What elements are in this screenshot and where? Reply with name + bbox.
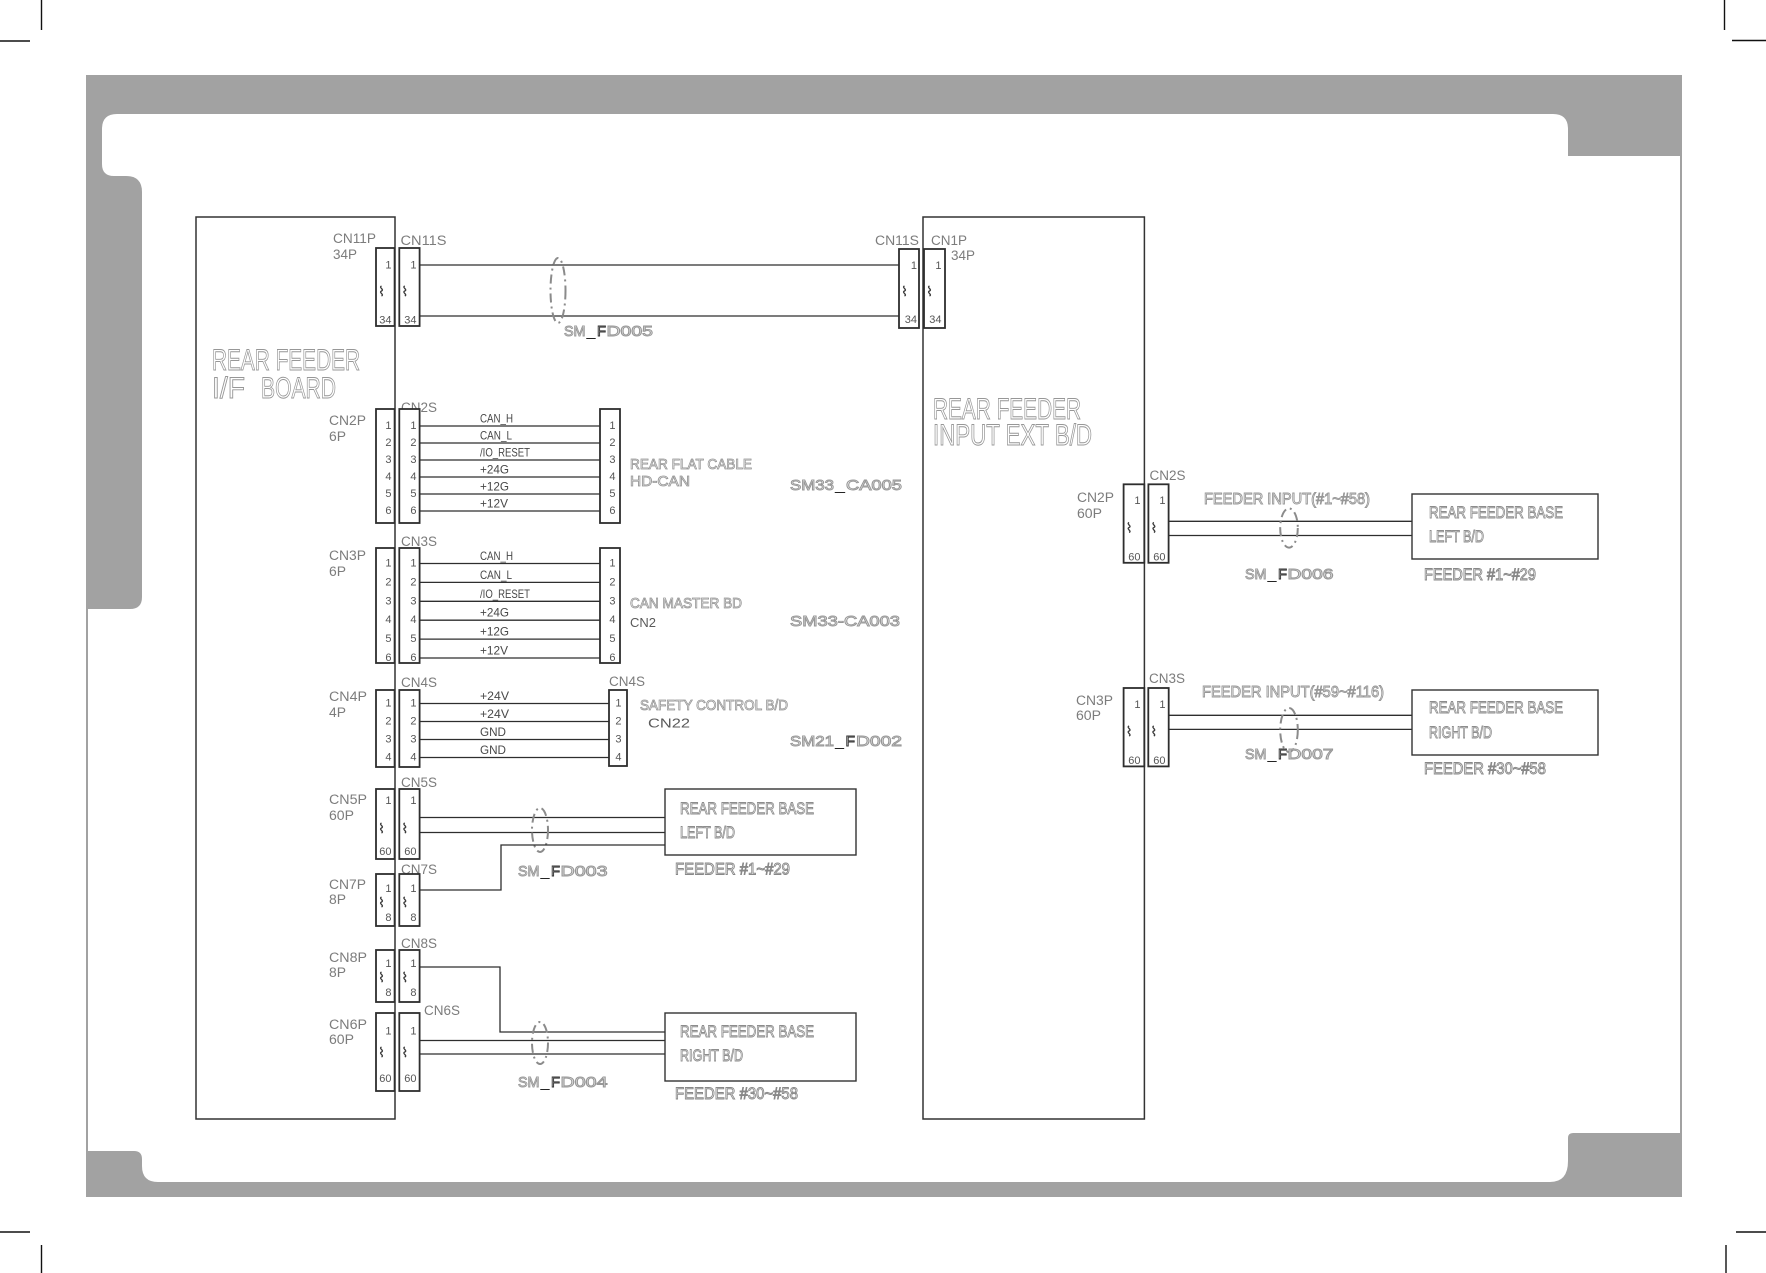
wire +24V (CN4) [420,703,609,705]
wire CN6S upper to RIGHT B/D box [420,1040,665,1042]
svg-text:6: 6 [609,505,615,517]
svg-text:FEEDER INPUT(#1~#58): FEEDER INPUT(#1~#58) [1204,491,1370,508]
crop mark bottom-right [1726,1232,1766,1273]
svg-text:4P: 4P [329,705,346,720]
crop mark top-right [1725,0,1766,41]
crop mark top-left [0,0,42,41]
svg-text:60: 60 [379,1073,391,1085]
svg-text:8P: 8P [329,965,346,980]
svg-text:34: 34 [905,314,917,326]
svg-text:1: 1 [410,420,416,432]
page frame gray border [86,75,1682,1197]
svg-text:60P: 60P [1077,506,1102,521]
svg-text:CN7P: CN7P [329,877,366,892]
cable marker SM_FD004 [532,1022,548,1064]
connector CN7P [376,874,395,926]
connector CN7S [399,874,419,926]
svg-text:60P: 60P [1076,708,1101,723]
svg-text:3: 3 [410,734,416,746]
svg-text:CN2P: CN2P [1077,490,1114,505]
svg-text:1: 1 [935,260,941,272]
wire CN3S upper to RIGHT B/D base box [1169,714,1412,716]
svg-text:_: _ [585,323,596,340]
svg-text:FEEDER #1~#29: FEEDER #1~#29 [1424,565,1536,584]
wire CAN_L [420,442,600,444]
svg-text:5: 5 [410,488,416,500]
svg-text:GND: GND [480,725,506,739]
svg-text:3: 3 [410,454,416,466]
svg-text:REAR FEEDER BASE: REAR FEEDER BASE [1429,698,1563,717]
svg-text:34P: 34P [951,248,975,263]
connector CN5S [399,789,419,859]
svg-text:CAN_H: CAN_H [480,412,513,426]
svg-text:2: 2 [385,437,391,449]
wire CN6S lower to RIGHT B/D box [420,1053,665,1055]
connector CN11P [376,248,395,327]
svg-text:REAR FEEDER BASE: REAR FEEDER BASE [680,1022,814,1041]
svg-text:3: 3 [615,734,621,746]
label REAR FLAT CABLE HD-CAN [630,456,752,490]
svg-text:4: 4 [385,471,391,483]
svg-text:+24G: +24G [480,463,509,477]
svg-text:F: F [597,323,606,340]
svg-text:SAFETY CONTROL B/D: SAFETY CONTROL B/D [640,697,788,714]
svg-text:34: 34 [379,315,391,327]
svg-text:HD-CAN: HD-CAN [630,473,690,490]
cable marker SM_FD003 [532,808,548,852]
cable marker SM_FD005 [551,258,566,323]
wire +24V (CN4) [420,721,609,723]
svg-text:/IO_RESET: /IO_RESET [480,446,531,460]
svg-text:CN11S: CN11S [875,233,919,248]
svg-text:1: 1 [385,558,391,570]
svg-text:REAR FEEDER BASE: REAR FEEDER BASE [680,799,814,818]
svg-text:CN5S: CN5S [401,775,437,790]
svg-text:SM: SM [518,1074,540,1091]
svg-text:CN8P: CN8P [329,950,367,965]
svg-text:I/F: I/F [212,372,245,405]
svg-text:2: 2 [385,576,391,588]
connector CN4P [376,690,395,767]
svg-text:CN2: CN2 [630,615,656,630]
svg-text:FEEDER #1~#29: FEEDER #1~#29 [675,860,790,879]
svg-text:SM33: SM33 [790,477,834,494]
svg-text:1: 1 [410,958,416,970]
svg-text:F: F [551,863,560,880]
svg-text:2: 2 [385,716,391,728]
cable label SM33_CA005 [790,477,902,494]
board REAR FEEDER INPUT EXT B/D title [933,393,1092,452]
wire +12V (CN3) [420,657,600,659]
svg-text:1: 1 [1159,495,1165,507]
svg-text:F: F [1278,566,1287,583]
svg-text:CN4S: CN4S [401,675,437,690]
wire +24G [420,476,600,478]
connector CN2P(right) [1124,484,1145,563]
svg-text:8: 8 [410,912,416,924]
svg-text:_: _ [539,863,550,880]
svg-text:2: 2 [615,716,621,728]
cable label SM_FD005 [564,323,653,340]
svg-text:1: 1 [410,558,416,570]
connector CN11S [399,248,419,327]
svg-text:1: 1 [385,698,391,710]
svg-text:1: 1 [385,958,391,970]
board REAR FEEDER INPUT EXT B/D outline [923,217,1144,1119]
svg-text:/IO_RESET: /IO_RESET [480,587,531,601]
svg-text:CN4S: CN4S [609,674,645,689]
svg-text:8: 8 [410,987,416,999]
svg-text:_: _ [539,1074,550,1091]
svg-text:1: 1 [410,698,416,710]
connector CN3P [376,548,395,664]
crop mark bottom-left [0,1232,42,1273]
connector CAN MASTER connector [600,548,620,664]
connector CN3P(right) [1124,688,1145,767]
board REAR FEEDER I/F BOARD outline [196,217,395,1119]
svg-text:CN3P: CN3P [1076,693,1113,708]
box REAR FEEDER BASE LEFT B/D (right) [1412,494,1598,559]
svg-text:RIGHT B/D: RIGHT B/D [680,1046,743,1065]
svg-text:D006: D006 [1288,566,1334,583]
wire +12G [420,493,600,495]
svg-text:34: 34 [929,314,941,326]
cable marker SM_FD007 [1280,708,1298,752]
svg-text:1: 1 [1134,495,1140,507]
svg-text:6P: 6P [329,564,346,579]
svg-text:4: 4 [385,614,391,626]
wire CN5S upper to LEFT B/D box [420,817,665,819]
wire CN7S pin1 branch to LEFT B/D box [420,845,665,890]
svg-text:CN2P: CN2P [329,413,366,428]
connector CN4S [399,690,419,767]
svg-text:CN6P: CN6P [329,1017,367,1032]
svg-text:2: 2 [609,437,615,449]
svg-text:D007: D007 [1288,746,1334,763]
svg-text:6: 6 [385,652,391,664]
svg-text:REAR FLAT CABLE: REAR FLAT CABLE [630,456,752,473]
svg-text:CN22: CN22 [648,716,690,731]
svg-text:1: 1 [911,260,917,272]
svg-text:BOARD: BOARD [261,372,336,405]
svg-text:CN2S: CN2S [1150,468,1186,483]
svg-text:1: 1 [615,698,621,710]
svg-text:6P: 6P [329,429,346,444]
svg-text:CN3P: CN3P [329,548,366,563]
svg-text:LEFT B/D: LEFT B/D [1429,527,1484,546]
svg-text:+12V: +12V [480,497,508,511]
svg-text:1: 1 [1134,699,1140,711]
wire CN8S pin1 branch to RIGHT B/D box [420,967,665,1032]
connector CN8P [376,950,395,1002]
svg-text:FEEDER #30~#58: FEEDER #30~#58 [675,1084,798,1103]
svg-text:D002: D002 [856,733,902,750]
svg-text:4: 4 [410,614,416,626]
connector CN2P [376,409,395,523]
wire CAN_H [420,425,600,427]
svg-text:6: 6 [410,652,416,664]
svg-text:REAR FEEDER BASE: REAR FEEDER BASE [1429,503,1563,522]
svg-text:CN1P: CN1P [931,233,967,248]
connector CN3S [399,548,419,664]
svg-text:3: 3 [385,454,391,466]
wire CN11S pin1 to CN11S(right) [420,264,899,266]
svg-text:34: 34 [404,315,416,327]
svg-text:CN4P: CN4P [329,689,367,704]
svg-text:1: 1 [385,1025,391,1037]
svg-text:_: _ [1266,566,1277,583]
svg-text:60: 60 [404,846,416,858]
svg-text:5: 5 [385,633,391,645]
svg-text:60: 60 [379,846,391,858]
connector CN6S [399,1013,419,1091]
svg-text:SM: SM [1245,566,1267,583]
svg-text:CN8S: CN8S [401,936,437,951]
label CAN MASTER BD [630,595,742,630]
svg-text:5: 5 [385,488,391,500]
svg-text:_: _ [1266,746,1277,763]
svg-text:2: 2 [410,716,416,728]
svg-text:3: 3 [385,734,391,746]
svg-text:3: 3 [609,454,615,466]
connector CN5P [376,789,395,859]
svg-text:6: 6 [385,505,391,517]
svg-text:D004: D004 [561,1074,608,1091]
svg-text:4: 4 [615,752,621,764]
svg-text:FEEDER INPUT(#59~#116): FEEDER INPUT(#59~#116) [1202,684,1384,701]
svg-text:5: 5 [410,633,416,645]
svg-text:CAN_L: CAN_L [480,429,512,443]
cable label SM_FD003 [518,863,608,880]
svg-text:1: 1 [410,883,416,895]
connector CN2S [399,409,419,523]
svg-text:3: 3 [609,595,615,607]
connector HD-CAN connector [600,409,620,523]
connector CN11S(right) [899,249,919,328]
svg-text:2: 2 [609,576,615,588]
svg-text:6: 6 [609,652,615,664]
svg-text:F: F [1278,746,1287,763]
box REAR FEEDER BASE LEFT B/D [665,789,856,855]
svg-text:+24G: +24G [480,606,509,620]
connector CN8S [399,950,419,1002]
svg-text:CN3S: CN3S [401,534,437,549]
svg-text:2: 2 [410,437,416,449]
cable label SM33-CA003 [790,613,900,630]
svg-text:60: 60 [1128,552,1140,564]
svg-text:1: 1 [385,795,391,807]
cable label SM_FD006 [1245,566,1334,583]
svg-text:3: 3 [385,595,391,607]
wire CN3S lower to RIGHT B/D base box [1169,728,1412,730]
wire +12G (CN3) [420,638,600,640]
svg-text:60: 60 [1153,755,1165,767]
svg-text:F: F [846,733,856,750]
svg-text:1: 1 [410,795,416,807]
connector CN6P [376,1013,395,1091]
svg-text:1: 1 [385,420,391,432]
box REAR FEEDER BASE RIGHT B/D [665,1013,856,1081]
label SAFETY CONTROL B/D [640,697,788,731]
svg-text:CAN MASTER BD: CAN MASTER BD [630,595,742,612]
svg-text:1: 1 [385,883,391,895]
svg-text:CN11P: CN11P [333,231,376,246]
svg-text:+24V: +24V [480,707,509,721]
svg-text:4: 4 [609,471,615,483]
svg-text:1: 1 [410,260,416,272]
wire GND (CN4) [420,757,609,759]
svg-text:CAN_H: CAN_H [480,549,513,563]
svg-text:4: 4 [609,614,615,626]
board REAR FEEDER I/F BOARD title [212,344,360,405]
wire GND (CN4) [420,739,609,741]
svg-text:2: 2 [410,576,416,588]
wire CAN_L (CN3) [420,581,600,583]
svg-text:CA005: CA005 [846,477,902,494]
svg-text:CN3S: CN3S [1149,671,1185,686]
svg-text:5: 5 [609,633,615,645]
wire CAN_H (CN3) [420,563,600,565]
svg-text:3: 3 [410,595,416,607]
cable label SM_FD004 [518,1074,608,1091]
svg-text:SM33-CA003: SM33-CA003 [790,613,900,630]
svg-text:1: 1 [609,558,615,570]
svg-text:34P: 34P [333,247,357,262]
svg-text:60: 60 [1128,755,1140,767]
connector CN3S(right) [1148,688,1168,767]
svg-text:D005: D005 [607,323,654,340]
wire +24G (CN3) [420,619,600,621]
svg-text:6: 6 [410,505,416,517]
wire CN2S upper to LEFT B/D base box [1169,520,1412,522]
svg-text:INPUT EXT B/D: INPUT EXT B/D [933,419,1092,452]
cable label SM21_FD002 [790,733,902,750]
cable label SM_FD007 [1245,746,1334,763]
svg-text:SM: SM [1245,746,1267,763]
box REAR FEEDER BASE RIGHT B/D (right) [1412,690,1598,755]
connector SAFETY connector CN4S [609,690,627,766]
connector CN1P [924,249,945,328]
svg-text:CN6S: CN6S [424,1003,460,1018]
connector CN2S(right) [1148,484,1168,563]
svg-text:+12V: +12V [480,644,508,658]
svg-text:8: 8 [385,987,391,999]
svg-text:1: 1 [385,260,391,272]
svg-text:+12G: +12G [480,480,509,494]
svg-text:LEFT B/D: LEFT B/D [680,823,735,842]
svg-text:1: 1 [609,420,615,432]
svg-text:8: 8 [385,912,391,924]
cable marker SM_FD006 [1280,508,1298,547]
svg-text:60: 60 [404,1073,416,1085]
svg-text:4: 4 [385,752,391,764]
svg-text:1: 1 [1159,699,1165,711]
wire CN11S pin34 to CN11S(right) [420,315,899,317]
svg-text:GND: GND [480,743,506,757]
svg-text:60: 60 [1153,552,1165,564]
svg-text:8P: 8P [329,892,346,907]
svg-text:SM: SM [518,863,540,880]
svg-text:60P: 60P [329,1032,354,1047]
wire CN2S lower to LEFT B/D base box [1169,535,1412,537]
wire /IO_RESET [420,459,600,461]
svg-text:_: _ [834,477,846,494]
wire CN5S lower to LEFT B/D box [420,832,665,834]
svg-text:F: F [551,1074,560,1091]
svg-text:1: 1 [410,1025,416,1037]
svg-text:4: 4 [410,471,416,483]
svg-text:SM: SM [564,323,586,340]
svg-text:SM21: SM21 [790,733,834,750]
svg-text:CAN_L: CAN_L [480,568,512,582]
svg-text:+24V: +24V [480,689,509,703]
svg-text:CN5P: CN5P [329,792,367,807]
svg-text:60P: 60P [329,808,354,823]
svg-text:+12G: +12G [480,625,509,639]
svg-text:CN11S: CN11S [401,233,447,248]
svg-text:4: 4 [410,752,416,764]
svg-text:RIGHT B/D: RIGHT B/D [1429,723,1492,742]
svg-text:D003: D003 [561,863,608,880]
svg-text:_: _ [834,733,845,750]
wire /IO_RESET (CN3) [420,600,600,602]
wire +12V [420,510,600,512]
svg-text:FEEDER #30~#58: FEEDER #30~#58 [1424,759,1546,778]
svg-text:5: 5 [609,488,615,500]
